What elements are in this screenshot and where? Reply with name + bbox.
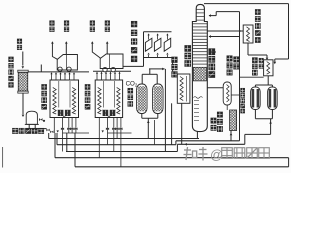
air compressor (kong ya ji) bell symbol	[26, 111, 37, 124]
wire filter to compressor	[22, 93, 24, 114]
column trays upper narrow section	[196, 8, 204, 10]
wire separator feed with up arrow	[230, 131, 232, 141]
main evaporator hatched section in column base	[193, 67, 206, 81]
long vertical wire right of column	[239, 12, 241, 141]
sub header under regenerator 2	[108, 132, 132, 134]
CO2 adsorber top manifold	[141, 74, 143, 84]
label liquid air adsorber (ye kong xi fu qi)	[240, 88, 245, 93]
left margin artifact line	[2, 147, 4, 168]
sub header under regenerator 1	[63, 132, 90, 134]
label waste nitrogen (wu dan) 1	[64, 20, 69, 25]
waste N2 outlet 1 wire	[65, 44, 67, 55]
valve circles unit 1	[58, 67, 62, 71]
column trays	[192, 23, 207, 25]
wire long vertical to air subcooler bottom	[240, 76, 264, 78]
wire L1 to long vertical	[176, 140, 240, 142]
wire into column mid	[209, 51, 216, 53]
label pure nitrogen 2	[90, 20, 95, 25]
adsorber top manifold	[254, 85, 256, 87]
label air small	[259, 58, 264, 63]
bus wire B5	[75, 166, 289, 168]
turbo expander body 3	[164, 38, 171, 51]
air filter vessel (kong qi guo lv qi)	[18, 72, 27, 91]
drops and valves under regenerator 2	[98, 118, 100, 134]
label air compressor (kong qi ya suo ji)	[12, 128, 18, 134]
right border wire down	[288, 4, 290, 59]
wire liquefier area to B2	[171, 103, 173, 144]
wire air subcooler to adsorbers	[267, 76, 269, 85]
pure N2 outlet 1 wire	[52, 44, 57, 60]
label air (kong qi) inlet	[17, 39, 22, 44]
wire subcooler down to air subcooler	[247, 43, 249, 55]
wire manifold2 to expander bottom	[123, 65, 144, 67]
bus wire B4	[55, 157, 289, 159]
changeover manifold 2	[100, 54, 123, 69]
waste N2 outlet 2 wire	[106, 44, 108, 55]
liquid nitrogen subcooler (ye dan guo leng qi)	[243, 25, 253, 43]
arrows into expanders from bottom	[148, 55, 150, 58]
changeover manifold 1	[57, 55, 77, 71]
label separator (fen li qi)	[217, 112, 223, 118]
expander bottom header	[144, 57, 173, 59]
label liquid N2 subcooler	[255, 9, 261, 15]
watermark zhihu logo char 1	[184, 147, 208, 161]
CO2 adsorber vessel B	[153, 84, 163, 114]
liquid air adsorber vessel 2	[268, 87, 278, 110]
label nitrogen regenerator 1 (dan xu leng qi)	[41, 84, 47, 90]
regenerator 2 bottom bundles	[103, 110, 109, 116]
column sump drain	[196, 132, 198, 139]
regenerator 1 shell	[50, 80, 79, 118]
wire feed to CO2 adsorbers with up arrow	[147, 118, 149, 138]
wire expander outlet to liquefier	[172, 58, 174, 76]
wire compressor discharge	[28, 124, 30, 128]
wire air inlet down	[22, 52, 24, 66]
label liquefier (ye hua qi)	[171, 57, 177, 63]
adsorber bottom manifold	[254, 110, 256, 119]
arrows expanders to top header	[148, 35, 150, 40]
turbo expander body 1	[145, 38, 152, 51]
auxiliary condenser vessel	[223, 82, 231, 105]
label turbo expander (tou ping peng zhang ji)	[131, 21, 137, 27]
label waste nitrogen 2	[105, 20, 110, 25]
regenerator 1 coil left	[53, 88, 56, 115]
wire CO2 vessel B drop	[154, 120, 156, 145]
left connection into header	[40, 65, 42, 72]
wire column to aux condenser	[207, 87, 223, 89]
wire column top to right border	[204, 3, 289, 5]
drops and valves under regenerator 1	[53, 118, 55, 134]
wire riser to liquid air adsorber feed	[244, 134, 246, 144]
label pure nitrogen (chun dan) 1	[49, 20, 54, 25]
label subcooler (guo leng qi)	[252, 57, 258, 63]
wire L2 with left arrow to liquefier drain	[177, 143, 244, 145]
column sump level marks	[194, 100, 199, 102]
separator hatched box	[230, 110, 237, 131]
left riser B4	[54, 133, 56, 158]
valve cluster at compressor line	[46, 129, 49, 132]
pure N2 outlet 2 wire	[92, 44, 100, 59]
arrows regenerator 2 to header	[96, 73, 98, 80]
air subcooler (kong qi guo leng qi)	[264, 60, 273, 76]
valve circles unit 2	[103, 67, 107, 71]
arrows regenerator 1 to header	[51, 74, 53, 80]
label liquid (ye ti)	[211, 118, 217, 124]
liquefier drain wire	[181, 103, 183, 144]
wire right border to air subcooler with down arrow	[275, 58, 289, 60]
left riser B5	[74, 133, 76, 167]
column shell with dome and sump	[192, 4, 207, 131]
wire CO2 adsorber outlet with right arrow	[149, 68, 165, 70]
bus wire B3	[66, 151, 177, 153]
regenerator 2 coil right	[117, 88, 120, 115]
regenerator 1 bottom bundles	[58, 110, 64, 116]
wire into column upper-middle	[209, 36, 240, 38]
svg-text:CO2: CO2	[126, 81, 138, 88]
expander feed/return verticals	[143, 32, 145, 67]
turbo expander body 2	[154, 38, 161, 51]
CO2 adsorber bottom manifold	[141, 114, 143, 119]
wire reflux into column top	[216, 11, 239, 13]
wire CO2 outlet vertical down	[164, 69, 166, 152]
label main evaporator (zhu zheng fa qi)	[208, 48, 215, 55]
bus wire B1	[49, 138, 199, 140]
wire aux condenser to long vertical	[231, 94, 239, 96]
watermark name chars	[222, 148, 233, 159]
label air filter	[8, 57, 13, 62]
label rectification column (jing liu ta)	[184, 45, 191, 52]
regenerator 2 coil left	[98, 88, 101, 115]
regenerator 1 coil right	[72, 88, 75, 115]
expander top header	[144, 31, 172, 33]
bus wire B2	[57, 144, 176, 146]
CO2 adsorber vessel A	[137, 84, 147, 114]
label nitrogen regenerator 2	[85, 84, 91, 90]
liquid air adsorber vessel 1	[251, 87, 261, 110]
left riser B3	[66, 133, 68, 152]
wire column to liquid N2 subcooler	[207, 30, 243, 32]
left riser B2	[56, 133, 58, 145]
liquefier coil	[180, 77, 183, 101]
wire feed to liquid air adsorbers with up arrow	[270, 119, 272, 135]
label auxiliary condenser (fu zhu leng ning qi)	[227, 55, 233, 61]
label adsorber (xi fu qi)	[128, 88, 134, 94]
header above regenerator 1	[28, 71, 89, 73]
right end vertical joining B4 B5	[288, 158, 290, 167]
left riser B1	[48, 133, 50, 139]
small valve at compressor outlet	[39, 118, 42, 121]
regenerator 2 shell	[95, 80, 122, 118]
header above regenerator 2	[93, 70, 131, 72]
liquefier shell	[177, 74, 190, 103]
